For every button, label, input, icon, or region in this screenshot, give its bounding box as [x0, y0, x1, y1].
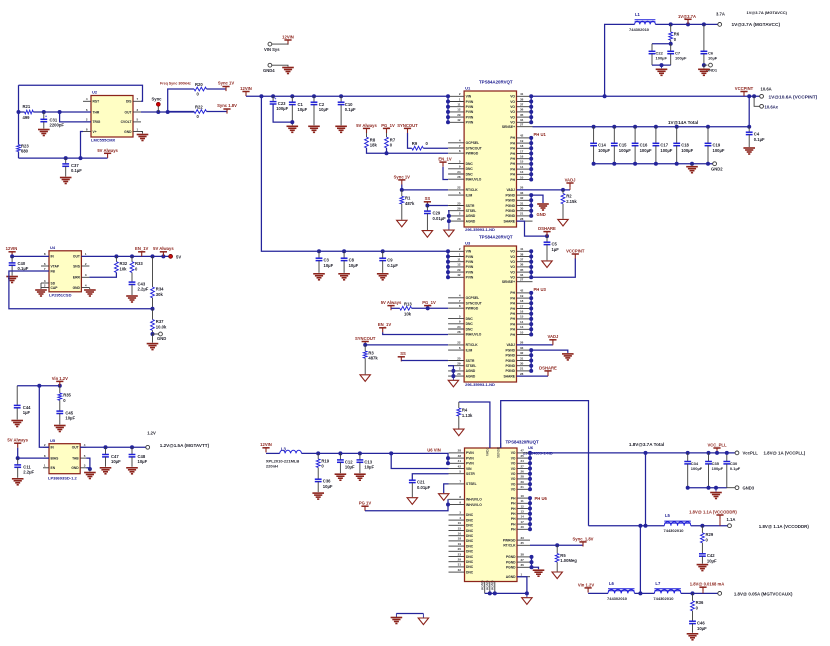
svg-text:26: 26 — [520, 341, 524, 345]
svg-text:296-35993-1-ND: 296-35993-1-ND — [465, 382, 495, 387]
svg-text:14: 14 — [520, 320, 524, 324]
power flag Sync 1.8V — [223, 108, 230, 110]
U3 pin 17 PH — [517, 308, 533, 310]
U3 pin 7 SYNCOUT — [448, 302, 464, 304]
svg-text:THR: THR — [93, 110, 100, 114]
wire STSEL U6 — [444, 484, 449, 493]
U3 pin 26 VADJ — [517, 344, 533, 346]
U3 pin 9 DNC — [448, 323, 464, 325]
svg-text:42: 42 — [458, 464, 462, 468]
svg-text:AGND: AGND — [481, 580, 485, 590]
U3 pin 21 PGND — [517, 370, 533, 372]
U6 pin 15 DNC — [449, 530, 465, 532]
U1 pin 13 PH — [517, 173, 533, 175]
U6 pin 21 VO — [517, 488, 530, 490]
svg-text:1: 1 — [85, 252, 87, 256]
svg-text:42: 42 — [457, 118, 461, 122]
terminal 1.1A — [728, 524, 732, 528]
U6 pin 42 VIN — [449, 468, 465, 470]
ground C44 — [11, 420, 23, 422]
ground R2 — [558, 219, 568, 226]
ground GND4 — [282, 67, 294, 69]
svg-text:PH: PH — [510, 136, 515, 140]
capacitor C9 — [382, 251, 384, 258]
terminal GND1 — [704, 64, 708, 66]
wire 12VIN drop to U3 — [261, 96, 448, 251]
svg-text:PVIN: PVIN — [466, 105, 474, 109]
capacitor C7 — [670, 44, 672, 52]
svg-text:L7: L7 — [655, 581, 661, 586]
wire L1 branch — [605, 24, 635, 96]
svg-text:OCPSEL: OCPSEL — [466, 296, 480, 300]
svg-text:42: 42 — [457, 273, 461, 277]
svg-text:1.2V: 1.2V — [147, 431, 156, 436]
svg-text:17: 17 — [520, 304, 524, 308]
svg-text:12: 12 — [457, 263, 461, 267]
svg-text:5: 5 — [459, 159, 461, 163]
svg-text:ILIM: ILIM — [466, 348, 473, 352]
svg-text:23: 23 — [457, 372, 461, 376]
svg-text:10µF: 10µF — [364, 465, 374, 470]
ground 1.8V caps — [715, 488, 717, 492]
capacitor C15 — [612, 125, 616, 129]
terminal 1.2V — [146, 445, 150, 449]
U3 pin 41 VO — [517, 250, 533, 252]
U1 pin 12 PVIN — [448, 111, 464, 113]
capacitor C6 — [703, 24, 705, 51]
U3 pin 18 PH — [517, 302, 533, 304]
resistor R1 — [401, 190, 403, 196]
ground PGND U6 — [533, 569, 545, 571]
svg-text:PG_1V: PG_1V — [422, 300, 436, 305]
ground U4 GND pin — [88, 288, 91, 290]
svg-text:100µF: 100µF — [681, 148, 693, 153]
U6 pin 23 DNC — [449, 556, 465, 558]
U4 pin 7 FB — [41, 270, 49, 272]
U6 pin 41 PVIN — [449, 462, 465, 464]
svg-text:VO: VO — [511, 462, 516, 466]
svg-text:R37: R37 — [156, 319, 164, 324]
svg-text:R21: R21 — [23, 104, 31, 109]
U3 pin 2 AGND — [448, 370, 464, 372]
wire SYNCOUT to R9 — [408, 133, 412, 148]
svg-text:220nH: 220nH — [266, 464, 278, 469]
svg-text:PGND: PGND — [505, 193, 515, 197]
U1 pin 18 PH — [517, 147, 533, 149]
svg-text:PH: PH — [510, 296, 515, 300]
U1 pin 31 PGND — [517, 205, 533, 207]
U1 pin 42 PVIN — [448, 121, 464, 123]
svg-text:29: 29 — [458, 558, 462, 562]
svg-text:28: 28 — [520, 217, 524, 221]
svg-text:PH: PH — [510, 312, 515, 316]
terminal 10.6Ax — [754, 96, 760, 106]
svg-text:2.15k: 2.15k — [566, 199, 577, 204]
svg-text:9: 9 — [459, 500, 461, 504]
svg-text:29: 29 — [457, 268, 461, 272]
svg-text:VO: VO — [510, 265, 515, 269]
svg-text:DNC: DNC — [466, 524, 474, 528]
terminal 5V — [169, 255, 173, 259]
capacitor C48 — [131, 447, 133, 454]
svg-text:2: 2 — [86, 118, 88, 122]
resistor R3 — [364, 345, 366, 351]
U4 pin 3 SD — [41, 282, 49, 284]
wire RT/CLK R5 — [530, 544, 583, 546]
svg-text:VO: VO — [510, 250, 515, 254]
svg-text:VIN: VIN — [466, 95, 472, 99]
ground C36 — [312, 492, 324, 494]
U1 pin 8 PWRGD — [448, 152, 464, 154]
wire U6 VIN pin — [391, 453, 448, 468]
svg-text:11: 11 — [521, 499, 525, 503]
svg-text:25: 25 — [457, 201, 461, 205]
U2 pin 1 GND — [133, 131, 141, 133]
resistor R20 — [194, 87, 206, 91]
svg-text:10: 10 — [458, 521, 462, 525]
U1 pin 37 VO — [517, 106, 533, 108]
U1 pin 33 PGND — [517, 194, 533, 196]
capacitor C21 — [409, 479, 416, 481]
U3 pin 34 VO — [517, 276, 533, 278]
svg-text:VADJ: VADJ — [547, 334, 559, 339]
capacitor C8 — [343, 251, 345, 258]
svg-text:VADJ: VADJ — [565, 177, 577, 182]
resistor R37 — [152, 309, 154, 320]
svg-text:STSEL: STSEL — [466, 209, 477, 213]
terminal GND3 — [727, 487, 735, 489]
svg-text:30: 30 — [520, 362, 524, 366]
svg-text:28: 28 — [520, 372, 524, 376]
U1 pin 4 OCPSEL — [448, 142, 464, 144]
svg-text:VCCPINT: VCCPINT — [735, 86, 754, 91]
svg-text:14: 14 — [521, 515, 525, 519]
svg-text:24: 24 — [521, 459, 525, 463]
svg-text:PGND: PGND — [506, 566, 516, 570]
svg-text:20: 20 — [458, 547, 462, 551]
svg-text:40: 40 — [521, 525, 525, 529]
svg-text:16: 16 — [458, 532, 462, 536]
svg-text:10.0k: 10.0k — [156, 325, 167, 330]
svg-text:DNC: DNC — [466, 162, 474, 166]
ground C9 — [377, 273, 389, 275]
svg-text:1: 1 — [521, 573, 523, 577]
wire DIS feedback top — [19, 85, 143, 101]
U1 pin 36 VO — [517, 111, 533, 113]
svg-text:LMC555CMX: LMC555CMX — [91, 138, 116, 143]
U1 pin 1 PVIN — [448, 101, 464, 103]
U3 pin 12 PVIN — [448, 266, 464, 268]
svg-text:0: 0 — [390, 143, 393, 148]
svg-text:33: 33 — [520, 346, 524, 350]
svg-text:U3: U3 — [465, 240, 471, 245]
capacitor C10 — [340, 96, 342, 102]
wire SSTR C21 — [412, 474, 448, 481]
svg-text:0.01µF: 0.01µF — [433, 216, 447, 221]
svg-text:100µF: 100µF — [640, 148, 652, 153]
svg-text:8: 8 — [86, 127, 88, 131]
U1 pin 28 SHARE — [517, 220, 533, 222]
svg-text:Vin 1.2V: Vin 1.2V — [578, 582, 594, 587]
svg-text:487k: 487k — [368, 356, 378, 361]
svg-text:RT/CLK: RT/CLK — [466, 188, 479, 192]
svg-text:1.13k: 1.13k — [462, 413, 473, 418]
resistor R6 — [670, 24, 672, 32]
svg-text:8: 8 — [44, 252, 46, 256]
wire SS to SSTR U3 — [401, 360, 448, 362]
U6 pin 40 PH — [517, 528, 530, 530]
U6 pin 44 SENSE — [500, 443, 502, 448]
U1 pin 38 VO — [517, 101, 533, 103]
capacitor C30 — [726, 453, 728, 462]
U6 pin 27 VO — [517, 468, 530, 470]
capacitor C17 — [654, 125, 658, 129]
svg-text:5V Always: 5V Always — [153, 246, 174, 251]
svg-text:DNC: DNC — [466, 513, 474, 517]
svg-text:48: 48 — [458, 454, 462, 458]
terminal VccPLL — [735, 451, 739, 455]
svg-text:SENSE: SENSE — [497, 446, 501, 458]
svg-text:INH/UVLO: INH/UVLO — [466, 503, 482, 507]
svg-text:INH/UVLO: INH/UVLO — [466, 333, 482, 337]
svg-text:14: 14 — [520, 165, 524, 169]
svg-text:DSHARE: DSHARE — [538, 226, 556, 231]
svg-text:0: 0 — [197, 92, 200, 97]
wire L6 to L7 — [635, 592, 655, 594]
node Sync — [156, 110, 160, 114]
svg-text:29: 29 — [521, 480, 525, 484]
svg-text:16: 16 — [520, 155, 524, 159]
ground SD CAP pins — [40, 283, 42, 288]
capacitor C23 — [272, 96, 274, 101]
svg-text:INH/UVLO: INH/UVLO — [466, 178, 482, 182]
svg-text:GND: GND — [124, 130, 132, 134]
wire 1.8V rail drop — [645, 453, 647, 526]
svg-text:28: 28 — [457, 330, 461, 334]
capacitor C22 — [651, 44, 653, 52]
wire L5 out — [691, 525, 728, 527]
U3 pin 42 PVIN — [448, 276, 464, 278]
svg-text:R5: R5 — [560, 553, 566, 558]
power flag 5V Always — [104, 152, 111, 154]
svg-text:5: 5 — [137, 118, 139, 122]
U3 pin 22 RT/CLK — [448, 344, 464, 346]
svg-text:18k: 18k — [370, 143, 378, 148]
svg-text:SENSE+: SENSE+ — [502, 125, 515, 129]
svg-text:DNC: DNC — [466, 529, 474, 533]
svg-text:744302010: 744302010 — [629, 27, 650, 32]
U6 pin 13 PH — [517, 513, 530, 515]
U1 pin 26 VADJ — [517, 189, 533, 191]
svg-text:100µF: 100µF — [619, 148, 631, 153]
capacitor C29 — [426, 206, 428, 212]
svg-text:U1: U1 — [465, 85, 471, 90]
svg-text:10µF: 10µF — [708, 56, 718, 61]
svg-text:AGND: AGND — [466, 374, 476, 378]
resistor R13 — [391, 307, 400, 309]
svg-text:1.00Meg: 1.00Meg — [560, 558, 577, 563]
U1 pin 29 STSEL — [448, 210, 464, 212]
U5 pin 5 TAB — [80, 457, 86, 459]
wire THR — [33, 111, 91, 113]
svg-text:PH: PH — [510, 141, 515, 145]
capacitor C40 — [11, 256, 13, 263]
svg-text:11: 11 — [457, 103, 461, 107]
U6 pin 18 DNC — [449, 540, 465, 542]
capacitor C47 — [105, 447, 107, 454]
wire U5 OUT 1.2V rail — [80, 446, 146, 448]
svg-text:38: 38 — [520, 97, 524, 101]
capacitor C36 — [317, 468, 319, 480]
ground U2 GND pin — [141, 132, 143, 134]
capacitor C18 — [675, 125, 679, 129]
ic U1 TPS84A20RVQT — [464, 91, 516, 227]
svg-text:29: 29 — [457, 113, 461, 117]
svg-text:41: 41 — [520, 92, 524, 96]
U6 pin 19 DNC — [449, 545, 465, 547]
svg-text:ILIM: ILIM — [466, 193, 473, 197]
U3 pin 5 DNC — [448, 318, 464, 320]
U6 pin 35 RT/CLK — [517, 544, 530, 546]
svg-text:PVIN: PVIN — [466, 255, 474, 259]
U2 pin 2 TRIG — [83, 121, 91, 123]
ground C47 — [100, 467, 112, 469]
ground C48 — [126, 467, 138, 469]
ic U5 LP38693SD-1.2 — [49, 444, 80, 474]
svg-text:15: 15 — [520, 315, 524, 319]
svg-text:DNC: DNC — [466, 555, 474, 559]
svg-text:10k: 10k — [404, 311, 412, 316]
svg-text:8: 8 — [44, 454, 46, 458]
resistor R4 — [458, 402, 460, 408]
svg-text:PGND: PGND — [505, 204, 515, 208]
ground PGND U1 — [529, 193, 533, 197]
svg-text:AGND: AGND — [486, 580, 490, 590]
svg-text:1.8V@ 1A (VCCPLL): 1.8V@ 1A (VCCPLL) — [764, 451, 806, 456]
svg-text:1V@3.7A: 1V@3.7A — [678, 14, 696, 19]
ground net-tie — [396, 613, 423, 615]
svg-text:744302010: 744302010 — [653, 596, 674, 601]
U6 pin 48 PVIN — [449, 457, 465, 459]
U6 PH bus — [529, 498, 531, 529]
svg-text:SS: SS — [400, 351, 406, 356]
svg-text:VIN Sys: VIN Sys — [264, 47, 280, 52]
svg-text:3: 3 — [137, 108, 139, 112]
node R21/C31 — [17, 110, 21, 114]
ground C42 — [697, 564, 709, 566]
svg-text:VADJ: VADJ — [506, 343, 515, 347]
svg-text:3: 3 — [84, 464, 86, 468]
U3 pin 36 VO — [517, 266, 533, 268]
capacitor C12 — [339, 453, 341, 460]
wire L7 out — [681, 592, 718, 594]
svg-text:PH: PH — [510, 173, 515, 177]
U5 pin 2 IN — [43, 446, 49, 448]
svg-text:35: 35 — [520, 268, 524, 272]
U6 pin 36 PGND — [517, 566, 530, 568]
U3 pin 31 PGND — [517, 360, 533, 362]
resistor R36 — [692, 593, 694, 600]
svg-text:27: 27 — [521, 464, 525, 468]
svg-text:VO: VO — [510, 276, 515, 280]
svg-text:DNC: DNC — [466, 550, 474, 554]
svg-text:7: 7 — [137, 97, 139, 101]
U6 pin 10 DNC — [449, 524, 465, 526]
svg-text:9: 9 — [459, 165, 461, 169]
svg-text:TRIG: TRIG — [93, 120, 101, 124]
svg-text:2: 2 — [44, 283, 46, 287]
svg-text:L1: L1 — [635, 12, 641, 17]
svg-text:6: 6 — [459, 346, 461, 350]
svg-text:SHARE: SHARE — [503, 219, 515, 223]
svg-text:0: 0 — [197, 114, 200, 119]
U3 pin 23 AGND — [448, 375, 464, 377]
resistor R23 — [17, 145, 21, 152]
capacitor C13 — [359, 453, 361, 460]
svg-text:+: + — [45, 115, 47, 119]
svg-text:VO: VO — [511, 482, 516, 486]
U1 VIN bus — [447, 96, 449, 122]
svg-text:37: 37 — [521, 558, 525, 562]
ground C43 — [126, 295, 138, 297]
svg-text:PGND: PGND — [505, 199, 515, 203]
U6 pin 38 PGND — [517, 556, 530, 558]
svg-text:1: 1 — [459, 97, 461, 101]
U1 pin 10 PH — [517, 179, 533, 181]
ground PGND U3 — [529, 348, 533, 352]
svg-text:2200pF: 2200pF — [50, 123, 65, 128]
svg-text:100µF: 100µF — [691, 466, 703, 471]
U3 pin 27 SENSE+ — [517, 281, 533, 283]
svg-text:DNC: DNC — [466, 570, 474, 574]
svg-text:DNC: DNC — [466, 327, 474, 331]
svg-text:15: 15 — [458, 526, 462, 530]
svg-text:19: 19 — [458, 542, 462, 546]
svg-text:PVIN: PVIN — [466, 121, 474, 125]
svg-text:Sync: Sync — [152, 97, 163, 102]
svg-text:DNC: DNC — [466, 322, 474, 326]
svg-text:PVIN: PVIN — [466, 110, 474, 114]
U6 pin 9 INH/UVLO — [449, 504, 465, 506]
svg-text:30: 30 — [520, 207, 524, 211]
U3 pin 33 PGND — [517, 349, 533, 351]
svg-text:PH U6: PH U6 — [535, 496, 548, 501]
U1 pin 42 PH — [517, 137, 533, 139]
svg-text:TPS84A20RVQT: TPS84A20RVQT — [479, 234, 513, 239]
ground C1 C23 — [287, 125, 299, 127]
capacitor C42 — [701, 543, 703, 554]
svg-text:2: 2 — [459, 92, 461, 96]
U3 pin 2 VIN — [448, 250, 464, 252]
ground STSEL U6 — [439, 494, 449, 501]
wire PWRGD U1 — [387, 152, 449, 154]
svg-text:9: 9 — [459, 320, 461, 324]
svg-text:PGND: PGND — [506, 560, 516, 564]
svg-text:38: 38 — [521, 553, 525, 557]
svg-text:V+: V+ — [93, 130, 97, 134]
U6 pin 28 VO — [517, 478, 530, 480]
U1 pin 22 RT/CLK — [448, 189, 464, 191]
U1 VO bus — [530, 96, 532, 122]
svg-text:0: 0 — [706, 538, 709, 543]
capacitor C37 — [65, 158, 67, 164]
svg-text:R1: R1 — [405, 196, 411, 201]
capacitor C44 — [16, 386, 18, 406]
svg-text:26: 26 — [520, 186, 524, 190]
svg-text:U6 VIN: U6 VIN — [427, 447, 441, 452]
svg-text:5V Always: 5V Always — [7, 438, 28, 443]
U3 pin 4 OCPSEL — [448, 297, 464, 299]
